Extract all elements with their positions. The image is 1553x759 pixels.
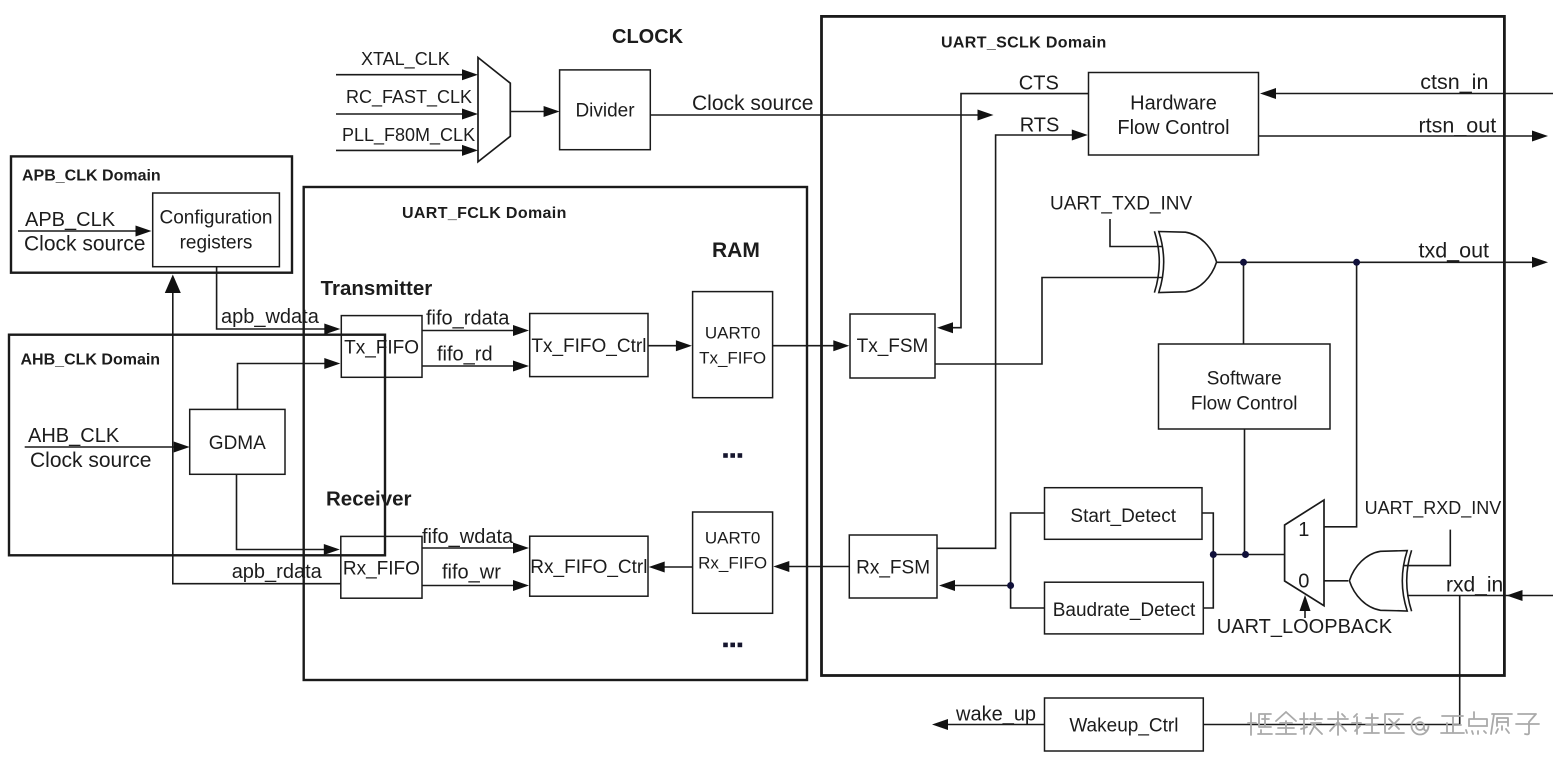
mux loopback select (1285, 500, 1324, 606)
box Configuration registers (153, 193, 280, 267)
box UART0 Tx_FIFO (693, 292, 773, 398)
wire fifo_wr (422, 585, 517, 587)
wire GDMA to Rx_FIFO (237, 474, 329, 549)
wire txd to Software Flow Control (1243, 262, 1245, 344)
node txd junction 2 (1353, 259, 1360, 266)
svg-text:ctsn_in: ctsn_in (1420, 70, 1488, 94)
svg-text:wake_up: wake_up (955, 704, 1036, 726)
box Rx_FSM (849, 535, 937, 598)
svg-text:GDMA: GDMA (209, 433, 266, 454)
xor gate U2 rxd invert (1407, 550, 1412, 611)
wire bracket start/baudrate detect left (1011, 513, 1045, 608)
arrow AHB_CLK to GDMA (174, 442, 190, 453)
svg-text:rtsn_out: rtsn_out (1419, 114, 1497, 138)
wire XTAL_CLK (336, 74, 465, 76)
watermark juejin community (1248, 712, 1539, 735)
wire UART0 Rx_FIFO to Rx_FIFO_Ctrl (661, 566, 693, 568)
wire UART0 Tx_FIFO to Tx_FSM (773, 345, 837, 347)
svg-text:Hardware: Hardware (1130, 92, 1217, 114)
box Rx_FIFO (341, 536, 422, 598)
svg-text:Tx_FIFO: Tx_FIFO (344, 337, 419, 358)
wire rxd_in (1407, 595, 1553, 597)
arrow wake_up (932, 719, 948, 730)
arrow rtsn_out (1532, 131, 1548, 142)
wire to Rx_FSM (952, 585, 1011, 587)
box Hardware Flow Control (1089, 73, 1259, 156)
arrow txd_out (1532, 257, 1548, 268)
wire fifo_rdata (422, 330, 517, 332)
wire Rx_FSM to UART0 Rx_FIFO (786, 566, 850, 568)
arrow apb_rdata up into APB box (165, 275, 181, 294)
arrow rxd_in into SCLK domain (1507, 590, 1523, 601)
wire RTS from Rx_FSM to HFC (937, 135, 1074, 548)
svg-text:APB_CLK: APB_CLK (25, 209, 116, 231)
svg-text:Rx_FIFO: Rx_FIFO (343, 558, 420, 579)
svg-text:Divider: Divider (575, 101, 635, 122)
svg-text:Wakeup_Ctrl: Wakeup_Ctrl (1069, 716, 1178, 737)
box Tx_FSM (850, 314, 935, 378)
wire RC_FAST_CLK (336, 113, 465, 115)
box UART0 Rx_FIFO (693, 512, 773, 613)
wire rx line to loopback mux (1213, 554, 1284, 556)
svg-text:UART_FCLK Domain: UART_FCLK Domain (402, 205, 567, 222)
svg-text:CLOCK: CLOCK (612, 26, 684, 48)
wire Clock source to SCLK domain (650, 114, 981, 116)
svg-text:UART_SCLK Domain: UART_SCLK Domain (941, 35, 1107, 52)
arrow Tx_FIFO_Ctrl to UART0 (676, 340, 692, 351)
svg-text:1: 1 (1298, 519, 1309, 541)
arrow UART0 Rx to Rx_FIFO_Ctrl (649, 562, 665, 573)
svg-text:rxd_in: rxd_in (1446, 574, 1503, 597)
svg-text:APB_CLK Domain: APB_CLK Domain (22, 168, 161, 185)
box UART_SCLK Domain (822, 16, 1505, 675)
wire UART_TXD_INV to xor gate (1110, 219, 1162, 247)
wire Tx_FSM to xor gate (935, 278, 1162, 365)
arrow XTAL_CLK (462, 69, 478, 80)
arrow ctsn_in into HFC (1260, 88, 1276, 99)
svg-text:Receiver: Receiver (326, 488, 412, 511)
node rx_fsm junction (1007, 582, 1014, 589)
arrow into Rx_FSM (939, 580, 955, 591)
wire wake_up (947, 724, 1045, 726)
arrow Clock source (978, 110, 994, 121)
arrow GDMA to Tx_FIFO (324, 358, 340, 369)
node rx line junction 2 (1242, 551, 1249, 558)
wire AHB_CLK clock source (25, 446, 177, 448)
svg-text:UART_RXD_INV: UART_RXD_INV (1365, 498, 1502, 519)
svg-text:RC_FAST_CLK: RC_FAST_CLK (346, 87, 472, 108)
wire apb_rdata to Configuration registers (173, 289, 341, 584)
arrow fifo_rdata (513, 325, 529, 336)
wire mux to divider (510, 111, 547, 113)
svg-text:fifo_rdata: fifo_rdata (426, 308, 510, 330)
arrow apb_wdata into Tx_FIFO (324, 324, 340, 335)
box GDMA (190, 409, 285, 474)
arrow Rx_FSM to UART0 Rx_FIFO (773, 561, 789, 572)
svg-text:fifo_rd: fifo_rd (437, 344, 493, 366)
svg-text:Rx_FSM: Rx_FSM (856, 558, 930, 579)
svg-text:Clock source: Clock source (30, 449, 151, 472)
mux clock-select (478, 58, 510, 162)
svg-text:Software: Software (1207, 369, 1282, 390)
box Start_Detect (1045, 488, 1203, 540)
svg-text:registers: registers (180, 232, 253, 253)
svg-text:Rx_FIFO: Rx_FIFO (698, 554, 767, 573)
svg-text:XTAL_CLK: XTAL_CLK (361, 49, 450, 70)
svg-text:Clock source: Clock source (24, 233, 145, 256)
svg-text:Tx_FIFO_Ctrl: Tx_FIFO_Ctrl (531, 336, 646, 357)
svg-text:AHB_CLK: AHB_CLK (28, 425, 120, 447)
xor gate U1 txd invert (1154, 231, 1159, 292)
svg-text:Flow Control: Flow Control (1117, 117, 1229, 139)
wire txd to loopback mux input 1 (1324, 262, 1357, 527)
wire APB_CLK clock source (18, 230, 139, 232)
node rx line junction 1 (1210, 551, 1217, 558)
wire GDMA to Tx_FIFO (238, 364, 329, 410)
svg-text:Rx_FIFO_Ctrl: Rx_FIFO_Ctrl (530, 557, 647, 578)
svg-text:UART0: UART0 (705, 324, 760, 343)
arrow PLL_F80M_CLK (462, 145, 478, 156)
svg-text:UART_TXD_INV: UART_TXD_INV (1050, 194, 1193, 215)
svg-text:Clock source: Clock source (692, 92, 813, 115)
wire CTS from HFC to Tx_FSM (951, 94, 1089, 328)
svg-text:apb_wdata: apb_wdata (221, 306, 320, 328)
svg-text:txd_out: txd_out (1419, 239, 1490, 263)
arrow fifo_wr (513, 580, 529, 591)
box Tx_FIFO (341, 316, 422, 378)
arrow RTS into HFC (1072, 130, 1088, 141)
arrow mux to Divider (544, 106, 560, 117)
svg-text:AHB_CLK Domain: AHB_CLK Domain (21, 352, 161, 369)
arrow CTS into Tx_FSM (937, 322, 953, 333)
wire txd_out (1217, 261, 1534, 263)
svg-text:fifo_wdata: fifo_wdata (422, 526, 514, 548)
box Software Flow Control (1159, 344, 1331, 429)
box Wakeup_Ctrl (1045, 698, 1204, 751)
arrow APB_CLK to Configuration registers (136, 226, 152, 237)
svg-text:Flow Control: Flow Control (1191, 394, 1298, 415)
junction dots (1007, 259, 1360, 589)
arrow into Tx_FSM (833, 340, 849, 351)
wire fifo_wdata (422, 547, 517, 549)
arrow fifo_rd (513, 361, 529, 372)
box UART_FCLK Domain (304, 187, 807, 680)
arrow fifo_wdata (513, 543, 529, 554)
box Baudrate_Detect (1045, 582, 1204, 634)
box Rx_FIFO_Ctrl (530, 536, 648, 596)
wire Tx_FIFO_Ctrl to UART0 Tx_FIFO (648, 345, 680, 347)
wire rxd_in to Wakeup_Ctrl (1203, 596, 1459, 725)
arrowheads (136, 69, 1549, 730)
wire UART_RXD_INV to xor gate (1403, 530, 1450, 566)
wire ctsn_in (1274, 93, 1553, 95)
wire Software Flow Control to rx line (1244, 429, 1246, 555)
wire mux input 0 from xor gate (1324, 580, 1348, 582)
svg-text:RTS: RTS (1020, 115, 1060, 137)
wire PLL_F80M_CLK (336, 149, 465, 151)
svg-text:Tx_FIFO: Tx_FIFO (699, 349, 766, 368)
wire rtsn_out (1259, 135, 1535, 137)
box APB_CLK Domain (11, 156, 292, 272)
arrow UART_LOOPBACK up into mux (1300, 595, 1311, 611)
svg-text:Start_Detect: Start_Detect (1070, 506, 1176, 527)
svg-text:Tx_FSM: Tx_FSM (857, 336, 929, 357)
box Tx_FIFO_Ctrl (530, 314, 648, 377)
wire fifo_rd (422, 365, 517, 367)
svg-text:Transmitter: Transmitter (321, 277, 433, 300)
svg-text:apb_rdata: apb_rdata (232, 561, 323, 583)
arrow GDMA to Rx_FIFO (324, 544, 340, 555)
label dots tx (723, 453, 742, 458)
svg-text:UART_LOOPBACK: UART_LOOPBACK (1217, 616, 1393, 638)
wire UART_LOOPBACK select (1304, 608, 1306, 618)
resistor none: box Divider (560, 70, 651, 150)
svg-text:CTS: CTS (1019, 72, 1059, 94)
box AHB_CLK Domain (9, 335, 385, 556)
arrow RC_FAST_CLK (462, 109, 478, 120)
svg-text:PLL_F80M_CLK: PLL_F80M_CLK (342, 125, 475, 146)
svg-text:fifo_wr: fifo_wr (442, 562, 501, 584)
svg-text:Baudrate_Detect: Baudrate_Detect (1053, 600, 1196, 621)
wire bracket start/baudrate detect right (1202, 513, 1213, 608)
svg-text:UART0: UART0 (705, 529, 760, 548)
wire apb_wdata (217, 267, 328, 329)
svg-text:RAM: RAM (712, 239, 760, 262)
label dots rx (723, 643, 742, 648)
svg-text:Configuration: Configuration (159, 207, 272, 228)
node txd junction 1 (1240, 259, 1247, 266)
svg-text:0: 0 (1298, 571, 1309, 593)
